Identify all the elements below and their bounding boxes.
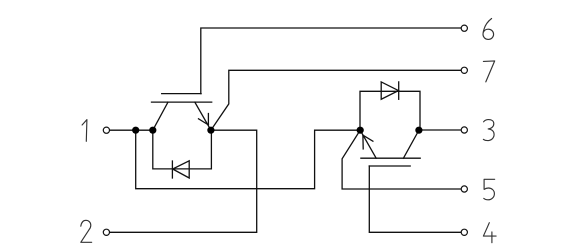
IGBT Q1 gate bar xyxy=(162,93,201,95)
wire: gate Q1 to terminal 6 xyxy=(201,28,461,94)
IGBT Q2 emitter lead xyxy=(360,130,376,158)
pin label 1 xyxy=(82,120,87,142)
junction node C2 xyxy=(415,127,422,134)
IGBT Q2 collector lead xyxy=(403,130,419,158)
wire: terminal 1 rail xyxy=(110,129,153,131)
terminal 4 circle xyxy=(461,229,467,235)
IGBT Q1 body bar xyxy=(152,101,212,103)
pin label 5 xyxy=(484,179,495,200)
pin label 7 xyxy=(483,61,494,82)
terminal 6 circle xyxy=(461,25,467,31)
wire: collector node C2 to terminal 3 xyxy=(419,129,461,131)
wire: gate Q2 to terminal 4 xyxy=(369,166,461,232)
junction node E2 xyxy=(357,127,364,134)
IGBT Q2 body bar xyxy=(361,157,420,159)
IGBT Q1 emitter lead xyxy=(195,102,211,130)
pin label 4 xyxy=(483,223,496,243)
pin label 6 xyxy=(483,19,494,40)
wire: emitter node E1 to terminal 7 xyxy=(211,70,461,130)
wire: emitter node E1 to terminal 2 xyxy=(110,130,257,232)
terminal 5 circle xyxy=(461,186,467,192)
pin label 3 xyxy=(483,120,494,141)
diode D1 triangle xyxy=(173,161,190,178)
diode D1 cathode bar xyxy=(171,161,173,178)
wire: diode D1 loop xyxy=(153,130,212,169)
IGBT Q1 emitter arrow xyxy=(199,114,209,125)
wire: terminal 1 rail to emitter node E2 xyxy=(136,130,361,189)
terminal 7 circle xyxy=(461,67,467,73)
terminal 3 circle xyxy=(461,127,467,133)
IGBT Q2 emitter arrow xyxy=(363,135,373,149)
junction node E1 xyxy=(207,127,214,134)
wire: diode D2 loop xyxy=(360,91,420,130)
junction dot A xyxy=(132,127,139,134)
pin label 2 xyxy=(81,220,92,242)
IGBT Q2 gate bar xyxy=(369,165,410,167)
wire: emitter node E2 to terminal 5 xyxy=(342,130,461,189)
IGBT Q1 collector lead xyxy=(153,102,168,130)
diode D2 cathode bar xyxy=(398,82,400,99)
diode D2 triangle xyxy=(381,82,398,99)
terminal 2 circle xyxy=(103,229,109,235)
junction dot B xyxy=(149,127,156,134)
terminal 1 circle xyxy=(103,127,109,133)
